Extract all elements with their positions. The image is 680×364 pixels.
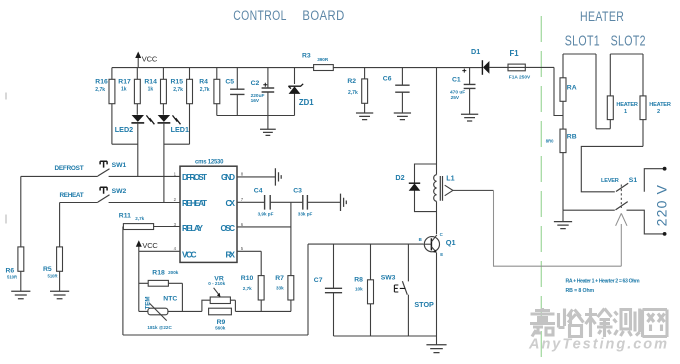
resistor R8: [370, 244, 372, 336]
svg-text:33k: 33k: [276, 285, 284, 290]
resistor R2: [364, 68, 366, 113]
svg-text:cms 12530: cms 12530: [195, 160, 224, 166]
resistor HEATER 1: [609, 54, 611, 129]
capacitor C2: [267, 68, 269, 116]
svg-text:LED2: LED2: [115, 125, 133, 134]
wire heater2 to switch: [581, 146, 643, 191]
capacitor C6: [401, 68, 403, 113]
terminal dot lower 220V: [663, 232, 667, 236]
wire VCC vertical: [138, 251, 140, 311]
svg-text:TEM: TEM: [145, 296, 152, 309]
svg-text:SLOT1: SLOT1: [565, 33, 600, 49]
wire REHEAT line: [60, 202, 98, 204]
svg-text:R3: R3: [302, 53, 311, 60]
left edge watermark tick: [5, 93, 7, 100]
diode D1: [481, 60, 483, 75]
resistor R17: [136, 68, 138, 115]
wire base line to Q1: [308, 243, 423, 245]
LED1: [158, 115, 170, 122]
svg-text:R17: R17: [118, 79, 131, 86]
svg-text:RA: RA: [567, 85, 577, 92]
diode D2: [409, 182, 420, 184]
svg-text:16V: 16V: [251, 98, 260, 104]
svg-text:OSC: OSC: [221, 224, 236, 233]
svg-text:C4: C4: [254, 188, 263, 195]
svg-text:BOARD: BOARD: [302, 8, 344, 23]
watermark char 2 (yu): [559, 309, 584, 337]
resistor R5: [59, 203, 61, 292]
ground under C6: [394, 113, 411, 120]
svg-text:R18: R18: [152, 269, 165, 276]
svg-text:HEATER: HEATER: [580, 9, 624, 25]
ground under Q1: [436, 336, 438, 345]
thermistor NTC: [139, 310, 202, 312]
wire heater feed: [554, 67, 563, 115]
svg-text:S1: S1: [629, 177, 638, 184]
wire S1 upper to terminal: [644, 169, 663, 192]
wire Q1 emitter down: [436, 253, 438, 336]
resistor R4: [216, 68, 218, 116]
zener ZD1: [294, 68, 296, 116]
svg-text:D2: D2: [395, 173, 404, 182]
resistor R10: [260, 300, 262, 312]
fuse F1: [508, 64, 525, 71]
svg-text:510R: 510R: [48, 274, 58, 279]
svg-text:RA + Heater 1 + Hearter 2 = 63: RA + Heater 1 + Hearter 2 = 63 Ohm: [566, 279, 640, 285]
resistor HEATER 2: [642, 54, 644, 146]
wire SLOT1 right prong: [595, 54, 597, 129]
IC U1 cms 12530 box: [180, 166, 237, 262]
svg-text:2: 2: [657, 109, 660, 115]
svg-text:SW1: SW1: [112, 162, 127, 169]
ground under C2: [267, 116, 269, 130]
VCC symbol (lower): [138, 246, 140, 252]
svg-text:510R: 510R: [7, 275, 17, 280]
svg-text:C7: C7: [314, 277, 323, 284]
svg-text:3,9k pF: 3,9k pF: [258, 211, 274, 216]
svg-text:5: 5: [241, 246, 244, 251]
wire L1 to linkage corner: [453, 189, 494, 191]
svg-text:REHEAT: REHEAT: [60, 192, 84, 199]
svg-text:6: 6: [241, 222, 244, 227]
svg-text:R11: R11: [119, 212, 131, 219]
wire DEFROST line: [21, 175, 98, 177]
svg-text:8: 8: [241, 171, 244, 176]
svg-text:L1: L1: [446, 174, 454, 183]
svg-text:RB = 8 Ohm: RB = 8 Ohm: [566, 288, 595, 294]
svg-text:2: 2: [174, 197, 177, 202]
resistor R16: [111, 68, 113, 145]
resistor R9: [209, 308, 232, 315]
linkage arrow at S1: [620, 224, 622, 266]
svg-text:R10: R10: [241, 275, 254, 282]
svg-text:C2: C2: [251, 80, 260, 87]
svg-text:AnyTesting.com: AnyTesting.com: [528, 337, 667, 353]
wire C4 to C3: [270, 201, 303, 203]
wire R11 left to bottom rail: [122, 227, 124, 336]
svg-text:1k: 1k: [121, 87, 127, 93]
svg-text:2,7k: 2,7k: [173, 87, 183, 93]
svg-text:2,7k: 2,7k: [135, 216, 144, 221]
watermark char 5 (wang): [643, 310, 668, 338]
svg-text:NTC: NTC: [163, 296, 177, 303]
svg-text:2,7k: 2,7k: [200, 87, 210, 93]
wire RX pin: [237, 251, 261, 275]
wire L1 to Q1 collector: [436, 201, 438, 234]
potentiometer VR: [202, 300, 236, 311]
switch SW2: [98, 195, 110, 202]
svg-text:0 - 210k: 0 - 210k: [208, 281, 225, 286]
watermark char 3 (jian): [585, 308, 613, 337]
svg-text:2,7k: 2,7k: [348, 90, 358, 96]
svg-text:HEATER: HEATER: [616, 102, 638, 108]
svg-text:LED1: LED1: [171, 125, 189, 134]
resistor RB: [562, 116, 564, 211]
svg-text:CONTROL: CONTROL: [233, 8, 287, 24]
svg-text:F1A 250V: F1A 250V: [509, 74, 531, 80]
terminal dot upper 220V: [663, 167, 667, 171]
svg-text:SW3: SW3: [381, 274, 396, 281]
ground under C1: [461, 114, 478, 121]
switch SW3: [407, 244, 409, 281]
svg-text:ZD1: ZD1: [299, 98, 314, 107]
svg-text:GND: GND: [221, 173, 235, 182]
wire SLOT2 bridge: [610, 53, 643, 55]
relay coil L1: [434, 175, 437, 202]
wire LED2 bottom join: [112, 143, 138, 145]
wire GND pin: [237, 176, 275, 178]
wire C3 to ground: [307, 201, 340, 203]
svg-text:R16: R16: [95, 79, 108, 86]
svg-text:220 V: 220 V: [654, 184, 670, 227]
ground under R2: [356, 113, 373, 120]
LED2: [132, 115, 144, 122]
svg-text:VCC: VCC: [142, 55, 158, 64]
watermark char 4 (ce): [614, 309, 640, 337]
capacitor C7: [333, 244, 335, 336]
wire heater1 bottom link: [596, 128, 610, 130]
wire VCC pin: [139, 250, 180, 252]
resistor R11: [123, 224, 153, 230]
wire RB to switch: [563, 209, 615, 211]
capacitor C3: [303, 195, 308, 210]
svg-text:R5: R5: [43, 266, 52, 273]
svg-text:D1: D1: [471, 47, 480, 56]
resistor R7: [290, 300, 292, 312]
resistor R14: [162, 68, 164, 115]
svg-text:R6: R6: [6, 268, 15, 275]
resistor RA: [562, 54, 564, 116]
svg-text:1: 1: [624, 109, 627, 115]
svg-text:200k: 200k: [168, 270, 179, 275]
svg-text:DEFROST: DEFROST: [55, 165, 84, 172]
wire S1 lower to terminal: [627, 210, 664, 234]
svg-text:R4: R4: [199, 79, 208, 86]
svg-text:SLOT2: SLOT2: [611, 33, 646, 49]
svg-text:LEVER: LEVER: [601, 178, 619, 184]
svg-text:R2: R2: [347, 78, 356, 85]
svg-text:F1: F1: [510, 49, 520, 58]
svg-text:REHEAT: REHEAT: [182, 199, 207, 208]
svg-text:Q1: Q1: [446, 238, 456, 247]
svg-text:C1: C1: [452, 76, 461, 83]
svg-text:SW2: SW2: [112, 188, 127, 195]
wire R4-C5-C2-ZD1 bottom link: [217, 115, 295, 117]
ground after C3 (rotated): [341, 194, 347, 211]
transistor Q1: [424, 237, 439, 252]
svg-text:7: 7: [241, 197, 244, 202]
relay mechanical linkage: [494, 190, 622, 266]
svg-text:DFROST: DFROST: [182, 173, 207, 182]
svg-text:R15: R15: [171, 79, 184, 86]
diode D2 loop wire: [415, 164, 437, 212]
svg-text:RB: RB: [567, 133, 577, 140]
capacitor C4: [265, 195, 271, 210]
resistor R18: [139, 282, 183, 284]
wire OSC pin: [237, 226, 291, 228]
resistor R3: [314, 65, 334, 71]
resistor R15: [189, 68, 191, 145]
watermark char 1 (jia): [530, 308, 555, 337]
svg-text:HEATER: HEATER: [649, 102, 671, 108]
ground under R6: [11, 291, 30, 298]
svg-text:E: E: [440, 252, 443, 257]
wire VCC top bus: [112, 67, 483, 69]
switch S1 upper lever: [616, 183, 628, 191]
wire R18 right down: [181, 283, 183, 311]
svg-text:VCC: VCC: [182, 251, 197, 260]
ground under RB: [562, 210, 564, 221]
svg-text:470 uF: 470 uF: [450, 89, 465, 95]
svg-text:C: C: [440, 232, 444, 237]
svg-text:C5: C5: [225, 79, 234, 86]
resistor R6: [20, 176, 22, 291]
svg-text:C3: C3: [293, 188, 302, 195]
capacitor C1 (electrolytic): [469, 68, 471, 115]
ground at GND pin (rotated): [275, 168, 281, 185]
svg-text:STOP: STOP: [414, 300, 434, 309]
svg-text:R7: R7: [275, 275, 284, 282]
svg-text:C6: C6: [383, 75, 392, 82]
switch SW1: [98, 169, 110, 176]
wire NTC row to R10/R7: [235, 310, 291, 312]
wire SW1 to pin1: [109, 175, 180, 177]
svg-text:RX: RX: [226, 251, 236, 260]
ground under R5: [50, 291, 69, 298]
wire SLOT1 bridge: [563, 53, 596, 55]
wire bottom rail right box: [334, 335, 437, 337]
svg-text:560k: 560k: [215, 325, 226, 330]
svg-text:1k: 1k: [148, 87, 154, 93]
switch S1 gang link: [620, 185, 622, 209]
svg-text:CX: CX: [226, 199, 236, 208]
wire main drop from bus: [436, 68, 438, 175]
VCC symbol (top): [137, 57, 139, 68]
board/heater dashed separator: [540, 16, 542, 364]
svg-text:1: 1: [174, 171, 177, 176]
wire CX pin to C4: [237, 201, 265, 203]
wire bottom rail left box: [123, 334, 308, 336]
svg-text:2,7k: 2,7k: [243, 286, 252, 291]
svg-text:4: 4: [174, 246, 177, 251]
svg-text:VCC: VCC: [142, 241, 158, 250]
svg-text:B: B: [419, 237, 422, 242]
wire box right edge up: [307, 244, 309, 335]
svg-text:33k pF: 33k pF: [298, 211, 313, 216]
svg-text:25V: 25V: [451, 95, 460, 101]
svg-text:RELAY: RELAY: [182, 224, 204, 233]
svg-text:R14: R14: [144, 79, 157, 86]
svg-text:390R: 390R: [317, 57, 329, 62]
svg-text:10k: 10k: [355, 287, 363, 292]
wire OSC junction vertical: [290, 202, 292, 275]
svg-text:R8: R8: [354, 276, 363, 283]
svg-text:181k @22C: 181k @22C: [147, 325, 172, 330]
capacitor C5: [236, 68, 238, 116]
switch S1 lower lever: [616, 202, 628, 210]
svg-text:2,7k: 2,7k: [95, 87, 105, 93]
svg-text:8R0: 8R0: [546, 139, 554, 144]
wire LED1 bottom join: [164, 143, 190, 145]
wire SW2 to pin2: [109, 202, 180, 204]
